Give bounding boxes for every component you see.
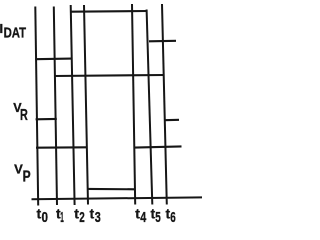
wire VP high level t0-t3	[36, 146, 87, 148]
label t5	[151, 206, 161, 227]
wire VR baseline after t6	[164, 119, 179, 121]
wire IDAT level after t5	[149, 40, 176, 43]
label VR	[13, 101, 27, 124]
svg-text:0: 0	[42, 209, 49, 224]
wire VP high level after t4	[135, 146, 182, 147]
node t5 gridline	[147, 10, 153, 205]
svg-text:5: 5	[155, 209, 161, 224]
label IDAT	[0, 21, 26, 42]
label VP	[14, 162, 31, 186]
label t1	[56, 206, 64, 227]
label t3	[90, 206, 101, 227]
node t1 gridline	[54, 7, 57, 206]
node t6 gridline	[162, 4, 167, 205]
svg-text:1: 1	[60, 209, 64, 224]
svg-text:DAT: DAT	[4, 25, 27, 42]
label t2	[74, 206, 85, 227]
wire VR high level t1-t6	[54, 75, 164, 76]
label t0	[37, 206, 49, 227]
time axis	[32, 197, 203, 199]
node t0 gridline	[35, 7, 38, 206]
wire VP low level t3-t4	[87, 188, 135, 191]
node t3 gridline	[84, 5, 88, 205]
node t2 gridline	[71, 5, 75, 205]
svg-text:2: 2	[79, 209, 85, 224]
svg-text:P: P	[23, 168, 31, 185]
label t4	[135, 206, 146, 227]
svg-text:t: t	[90, 206, 95, 222]
label t6	[166, 206, 176, 227]
wire IDAT level t0-t2	[35, 58, 71, 61]
node t4 gridline	[132, 4, 135, 205]
svg-text:4: 4	[140, 209, 146, 224]
svg-text:6: 6	[170, 209, 176, 224]
svg-text:R: R	[20, 107, 28, 124]
wire IDAT high level t2-t5	[71, 10, 147, 13]
svg-text:3: 3	[95, 209, 101, 224]
wire VR baseline t0-t1	[36, 118, 57, 121]
